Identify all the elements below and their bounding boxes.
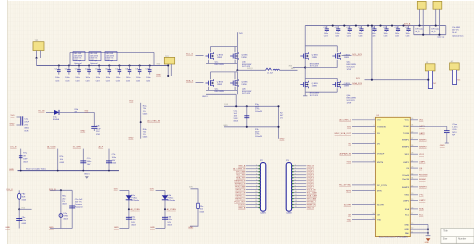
svg-text:GND: GND [440, 145, 445, 147]
svg-text:C0G: C0G [116, 80, 121, 82]
svg-text:Footprint: Footprint [75, 206, 83, 209]
svg-text:SOT-323: SOT-323 [310, 95, 319, 97]
svg-text:AI_F: AI_F [99, 146, 104, 149]
junction cap C7 [118, 64, 120, 66]
svg-text:RGGSM: RGGSM [419, 175, 427, 177]
wire 3V3 top bus [305, 25, 446, 27]
transistor Q8 [332, 81, 350, 89]
connector Y3 [425, 62, 435, 89]
wire block2 top rail [305, 45, 337, 47]
svg-text:14: 14 [373, 213, 375, 215]
svg-text:LIMP2: LIMP2 [419, 200, 426, 202]
transistor Q3 [206, 79, 224, 87]
junction tvs2 [164, 208, 166, 210]
svg-text:9: 9 [295, 188, 296, 190]
junction Y3 pin [427, 79, 429, 81]
svg-text:PAD: PAD [405, 232, 410, 235]
wire tvs1 bottom [119, 228, 128, 230]
svg-text:CAP2: CAP2 [419, 132, 425, 135]
svg-text:DOUT0: DOUT0 [238, 204, 246, 206]
svg-text:C0G: C0G [406, 35, 410, 37]
svg-text:C0G: C0G [75, 80, 80, 82]
junction L1 node [236, 69, 238, 71]
svg-text:GND_B: GND_B [307, 207, 315, 209]
wire block1 rail2 [211, 71, 238, 73]
LED D2 [59, 214, 63, 218]
svg-text:Short to Disable Video: Short to Disable Video [26, 168, 47, 171]
wire P1 pin 1 [246, 165, 261, 167]
svg-text:13: 13 [255, 200, 257, 202]
resistor R9 [197, 203, 200, 208]
wire tvs2 top [156, 189, 165, 191]
wire P1 pin 13 [246, 201, 261, 203]
sheet edge [6, 0, 8, 244]
svg-text:SCL_3V3: SCL_3V3 [352, 54, 362, 56]
svg-text:138W: 138W [344, 86, 349, 88]
svg-text:VSYNC_O: VSYNC_O [235, 195, 245, 197]
junction tvs1 [128, 208, 130, 210]
svg-text:Number: Number [458, 238, 466, 241]
junction bus 4 [367, 25, 369, 27]
svg-text:27: 27 [411, 138, 413, 140]
junction bus drop [371, 25, 373, 27]
svg-text:MIC: MIC [291, 68, 295, 70]
svg-text:DOUT1: DOUT1 [307, 169, 315, 171]
wire P1 pin 8 [246, 186, 261, 188]
wire block2 rail2 [305, 77, 337, 79]
svg-text:LVL_F: LVL_F [7, 189, 14, 191]
svg-text:10k: 10k [60, 159, 63, 161]
svg-text:7: 7 [256, 182, 257, 184]
capacitor C7 [118, 66, 122, 75]
wire lower2 left [60, 190, 62, 228]
capacitor C22 [348, 26, 352, 32]
junction Y2 bottom [167, 75, 169, 77]
svg-text:1/7W: 1/7W [347, 69, 352, 71]
svg-text:SDA_CAM: SDA_CAM [307, 194, 317, 197]
wire divider [140, 103, 142, 139]
junction option 2 [57, 170, 59, 172]
wire U1 right pin 22 [410, 132, 418, 134]
svg-text:AI_CVBS_1: AI_CVBS_1 [339, 119, 351, 122]
diode D1 [54, 110, 59, 115]
svg-text:4: 4 [295, 173, 296, 175]
junction cap C2 [68, 64, 70, 66]
svg-text:GND: GND [114, 227, 119, 229]
svg-text:25V: 25V [24, 125, 28, 127]
connector Y1 [33, 40, 44, 58]
capacitor C13 [91, 126, 97, 131]
junction A1 [36, 57, 38, 59]
svg-text:12: 12 [255, 197, 257, 199]
svg-text:6: 6 [256, 179, 257, 181]
capacitor C17 [69, 206, 75, 208]
svg-text:5: 5 [256, 176, 257, 178]
wire rail tie 2 [429, 26, 431, 35]
wire tvs1 col [128, 190, 130, 228]
svg-text:C0G: C0G [324, 35, 328, 37]
svg-text:HSYNC_O: HSYNC_O [235, 198, 245, 200]
wire P2 pin 1 [292, 165, 307, 167]
svg-text:C0G: C0G [347, 35, 351, 37]
svg-text:GND: GND [5, 227, 10, 229]
wire Q3 source stub [208, 87, 210, 91]
svg-text:BUoK: BUoK [404, 126, 410, 128]
wire bracket [190, 189, 198, 226]
svg-text:100n: 100n [112, 157, 116, 159]
svg-text:138W: 138W [344, 57, 349, 59]
wire P1 pin 2 [246, 168, 261, 170]
svg-text:100n: 100n [116, 77, 120, 79]
wire bias right column [278, 106, 280, 139]
wire jumper return rail [414, 34, 446, 36]
wire P2 pin 4 [292, 174, 307, 176]
svg-text:6: 6 [295, 179, 296, 181]
svg-text:PCLK_OUT: PCLK_OUT [234, 201, 246, 203]
svg-text:1%: 1% [280, 117, 283, 119]
wire U1 right pin 23 [410, 167, 418, 169]
capacitor C18b [162, 217, 168, 219]
junction cap C9 [139, 64, 141, 66]
svg-text:138W: 138W [312, 57, 317, 59]
wire Q4 source stub [234, 87, 236, 91]
ferrite bead FB1 (optional) [73, 52, 85, 62]
junction cap C3 [78, 64, 80, 66]
svg-text:CVI: CVI [377, 120, 381, 122]
wire D1 out [59, 111, 94, 113]
junction Y5 leg [435, 25, 437, 27]
wire P1 pin 6 [246, 180, 261, 182]
wire Q8 drain stub [336, 78, 338, 81]
svg-text:RC_STYNC: RC_STYNC [339, 185, 351, 187]
wire U1 right pin 26 [410, 146, 418, 148]
svg-text:100mW: 100mW [255, 111, 262, 113]
svg-text:SHMP2: SHMP2 [419, 146, 427, 148]
svg-text:GND: GND [10, 123, 15, 125]
svg-text:DOUT3: DOUT3 [307, 175, 315, 177]
jumper cell text 1 [415, 28, 423, 33]
svg-text:20: 20 [411, 193, 413, 195]
svg-text:100mW: 100mW [255, 136, 262, 138]
svg-text:10uF: 10uF [96, 128, 101, 130]
capacitor C23 [359, 26, 363, 32]
svg-text:RtnOM: RtnOM [402, 178, 409, 181]
svg-text:10: 10 [295, 191, 297, 193]
svg-text:HREF_IN: HREF_IN [307, 204, 316, 206]
svg-text:DOUT2: DOUT2 [307, 172, 315, 174]
svg-text:TSD: TSD [347, 219, 352, 221]
wire Q1 drain stub [210, 47, 212, 53]
wire P1 pin 15 [246, 207, 261, 209]
svg-text:2: 2 [374, 125, 375, 127]
svg-text:BSS138W: BSS138W [215, 64, 224, 66]
svg-text:C30: C30 [323, 27, 326, 29]
junction Y2 left leg [167, 64, 169, 66]
wire rail tie 1 [413, 26, 415, 35]
svg-text:Optional: Optional [90, 62, 98, 65]
svg-text:VOSUP: VOSUP [377, 154, 385, 156]
connector Y5 [433, 1, 442, 34]
svg-text:12: 12 [411, 228, 413, 230]
wire U1 right pin 16 [410, 119, 418, 121]
junction divider mid [140, 121, 142, 123]
svg-text:100n: 100n [96, 77, 100, 79]
wire block2 bottom [305, 91, 337, 93]
svg-text:138W: 138W [217, 84, 222, 86]
wire SCL out [342, 55, 352, 57]
wire bus riser right [153, 52, 155, 65]
junction cap C1 [58, 64, 60, 66]
transistor Q5 [300, 52, 318, 60]
svg-text:15: 15 [255, 206, 257, 208]
svg-text:GND: GND [404, 224, 409, 226]
svg-text:GND: GND [150, 227, 155, 229]
svg-text:DNP: DNP [23, 158, 28, 160]
wire block1 bottom [206, 93, 236, 95]
svg-text:SHMP3: SHMP3 [419, 187, 427, 189]
svg-text:CE: CE [348, 214, 352, 216]
junction gnd tie2 [427, 232, 429, 234]
capacitor C6 [108, 66, 112, 75]
wire 1V8 drop [236, 32, 238, 46]
svg-text:13: 13 [373, 218, 375, 220]
svg-text:SDA_3V3: SDA_3V3 [352, 82, 362, 85]
capacitor C11 [244, 116, 249, 118]
svg-text:C33: C33 [358, 27, 361, 29]
svg-text:GND_B: GND_B [307, 166, 315, 168]
wire P1 pin 5 [246, 177, 261, 179]
capacitor C15 [106, 161, 112, 163]
wire P2 pin 9 [292, 189, 307, 191]
svg-text:MTN: MTN [377, 190, 382, 192]
svg-text:Texas Instruments TVP5150AM1: Texas Instruments TVP5150AM1 [379, 235, 409, 238]
svg-text:3V3_A: 3V3_A [404, 22, 411, 25]
svg-text:7: 7 [295, 182, 296, 184]
svg-text:138W: 138W [241, 57, 246, 59]
svg-text:17: 17 [411, 213, 413, 215]
svg-text:RGBM: RGBM [419, 179, 426, 181]
capacitor C21 [336, 26, 340, 32]
svg-text:wake up: wake up [437, 37, 444, 39]
junction bus 2 [343, 25, 345, 27]
svg-text:1: 1 [374, 118, 375, 120]
wire bias top [224, 105, 279, 107]
wire SDA out [342, 84, 352, 86]
wire to Y3 [365, 79, 429, 81]
wire U1 right pin 11 [410, 232, 428, 234]
wire U1 left pin 3 [352, 132, 376, 134]
connector Y4 [417, 1, 426, 34]
svg-text:DOUT7: DOUT7 [307, 186, 315, 188]
svg-text:28: 28 [411, 153, 413, 155]
svg-text:14: 14 [255, 203, 257, 205]
wire P2 pin 10 [292, 192, 307, 194]
transistor Q4 [230, 79, 248, 87]
wire option col 2 [57, 149, 59, 171]
wire U1 left pin 13 [352, 219, 376, 221]
inductor L1 [266, 68, 280, 70]
junction lower1 [18, 208, 20, 210]
svg-text:100n: 100n [87, 161, 91, 163]
wire optional top [70, 51, 154, 53]
wire P1 pin 3 [246, 171, 261, 173]
svg-text:BSS138W: BSS138W [215, 91, 224, 93]
svg-text:12: 12 [295, 197, 297, 199]
svg-text:PDN_CAM: PDN_CAM [235, 185, 245, 188]
wire L1 out [280, 69, 298, 71]
capacitor C10 [148, 66, 152, 75]
junction gnd tie1 [427, 228, 429, 230]
capacitor C9 [138, 66, 142, 75]
svg-text:34: 34 [411, 178, 413, 180]
wire Q2 drain stub [234, 47, 236, 53]
junction option 1 [20, 170, 22, 172]
svg-text:138W: 138W [241, 84, 246, 86]
svg-text:AI_CVBS: AI_CVBS [131, 208, 141, 211]
wire P1 pin 9 [246, 189, 261, 191]
wire P2 pin 5 [292, 177, 307, 179]
svg-text:TSD: TSD [377, 220, 382, 222]
wire 3V3 drop right [371, 26, 373, 80]
capacitor C24 [372, 26, 376, 32]
svg-text:3: 3 [374, 132, 375, 134]
svg-text:32: 32 [411, 173, 413, 175]
svg-text:C0G: C0G [126, 80, 131, 82]
wire 5V0 bus [37, 65, 169, 67]
svg-text:25: 25 [411, 185, 413, 187]
wire U1 right pin 32 [410, 174, 418, 176]
wire U1 pin24 to C19 [418, 125, 447, 127]
wire block1 top rail [211, 46, 238, 48]
junction option 3 [82, 170, 84, 172]
wire Q1 source stub [208, 60, 210, 64]
svg-text:100n: 100n [106, 77, 110, 79]
junction bus 6 [391, 25, 393, 27]
jumper J5 plates [19, 156, 23, 158]
svg-text:10k: 10k [200, 209, 203, 211]
junction bias top b [246, 105, 248, 107]
svg-text:11: 11 [255, 194, 257, 196]
svg-text:3V3wide: 3V3wide [131, 200, 140, 202]
svg-text:Size: Size [443, 239, 448, 241]
svg-text:3V3wide: 3V3wide [167, 200, 176, 202]
svg-text:C0G: C0G [65, 80, 70, 82]
capacitor C27 [406, 26, 410, 32]
title block [441, 228, 474, 244]
svg-text:GND: GND [280, 139, 285, 141]
svg-text:SHMP3: SHMP3 [402, 187, 410, 189]
svg-text:SDA: SDA [419, 208, 424, 211]
wire block1 mid [206, 63, 237, 65]
ferrite bead FB7 [18, 193, 21, 199]
svg-text:15: 15 [295, 206, 297, 208]
capacitor C8 [128, 66, 132, 75]
junction Y5 leg2 [438, 34, 440, 36]
capacitor C4 [87, 66, 91, 75]
svg-text:GND: GND [188, 227, 193, 229]
svg-text:SCL_CAM: SCL_CAM [307, 191, 317, 194]
wire down to bias [235, 94, 237, 106]
svg-text:22: 22 [411, 131, 413, 133]
wire lower1 stub [19, 208, 31, 210]
svg-text:SCL_S: SCL_S [186, 54, 193, 56]
svg-text:C0G: C0G [96, 80, 101, 82]
svg-text:MTN: MTN [346, 190, 351, 192]
wire U1 right pin 17 [410, 214, 418, 216]
wire U1 right pin 34 [410, 178, 418, 180]
wire U1 left pin 5 [352, 204, 376, 206]
wire U1 right pin 27 [410, 139, 418, 141]
svg-text:RC_STYN: RC_STYN [377, 185, 387, 187]
wire P2 pin 3 [292, 171, 307, 173]
svg-text:GPIO1_LS: GPIO1_LS [235, 189, 246, 191]
svg-text:C0G: C0G [395, 35, 399, 37]
svg-text:SHMP1: SHMP1 [419, 140, 427, 142]
wire U1 left pin 9 [352, 184, 376, 186]
wire Y1 to bus [36, 58, 38, 66]
svg-text:9: 9 [256, 188, 257, 190]
svg-text:GND: GND [80, 131, 85, 133]
svg-text:4: 4 [256, 173, 257, 175]
wire U1 right pin 20 [410, 194, 418, 196]
svg-text:18: 18 [411, 207, 413, 209]
svg-text:10: 10 [255, 191, 257, 193]
junction Y4 leg [418, 25, 420, 27]
svg-text:ROutM: ROutM [402, 174, 409, 177]
svg-text:LIMP2: LIMP2 [403, 200, 410, 202]
wire Q2 source stub [234, 60, 236, 64]
transistor Q1 [206, 52, 224, 60]
wire P1 pin 7 [246, 183, 261, 185]
svg-text:SDA: SDA [405, 208, 410, 211]
capacitor C16 [16, 219, 22, 221]
connector P2 body [286, 163, 291, 212]
svg-text:10 uF: 10 uF [452, 32, 458, 34]
svg-text:AGPAIR_IN: AGPAIR_IN [339, 152, 351, 155]
wire block2 mid rail [305, 67, 337, 69]
svg-text:138W: 138W [312, 86, 317, 88]
junction bus 7 [402, 25, 404, 27]
diode D3a TVS [126, 195, 132, 200]
junction option 4 [108, 170, 110, 172]
wire Q6 source [336, 60, 338, 68]
wire block1 join [236, 47, 238, 71]
capacitor C2 [67, 66, 71, 75]
wire U1 left pin 4 [352, 143, 376, 145]
svg-text:B340A: B340A [53, 118, 60, 121]
diode D3b TVS [162, 195, 168, 200]
svg-text:100n: 100n [75, 77, 79, 79]
svg-text:23: 23 [411, 167, 413, 169]
wire Q1 gate [196, 55, 204, 57]
wire U1 right pin 15 [410, 223, 428, 225]
wire lower2 right [71, 190, 73, 228]
svg-text:GRN: GRN [63, 216, 68, 218]
svg-text:8: 8 [374, 160, 375, 162]
svg-text:5V0_CAM: 5V0_CAM [236, 171, 246, 174]
svg-text:AI_CVBS: AI_CVBS [167, 208, 177, 211]
junction Y4 leg2 [422, 34, 424, 36]
svg-text:DNP opt: DNP opt [74, 59, 82, 62]
wire rail tie 3 [445, 26, 447, 35]
wire down to C13 [93, 112, 95, 126]
svg-text:XCLK_IN: XCLK_IN [307, 189, 316, 191]
wire to D1 [46, 111, 54, 113]
wire cap column [246, 106, 248, 127]
svg-text:16: 16 [411, 118, 413, 120]
svg-text:SCL_3V3: SCL_3V3 [236, 175, 246, 177]
svg-text:GND: GND [49, 227, 54, 229]
